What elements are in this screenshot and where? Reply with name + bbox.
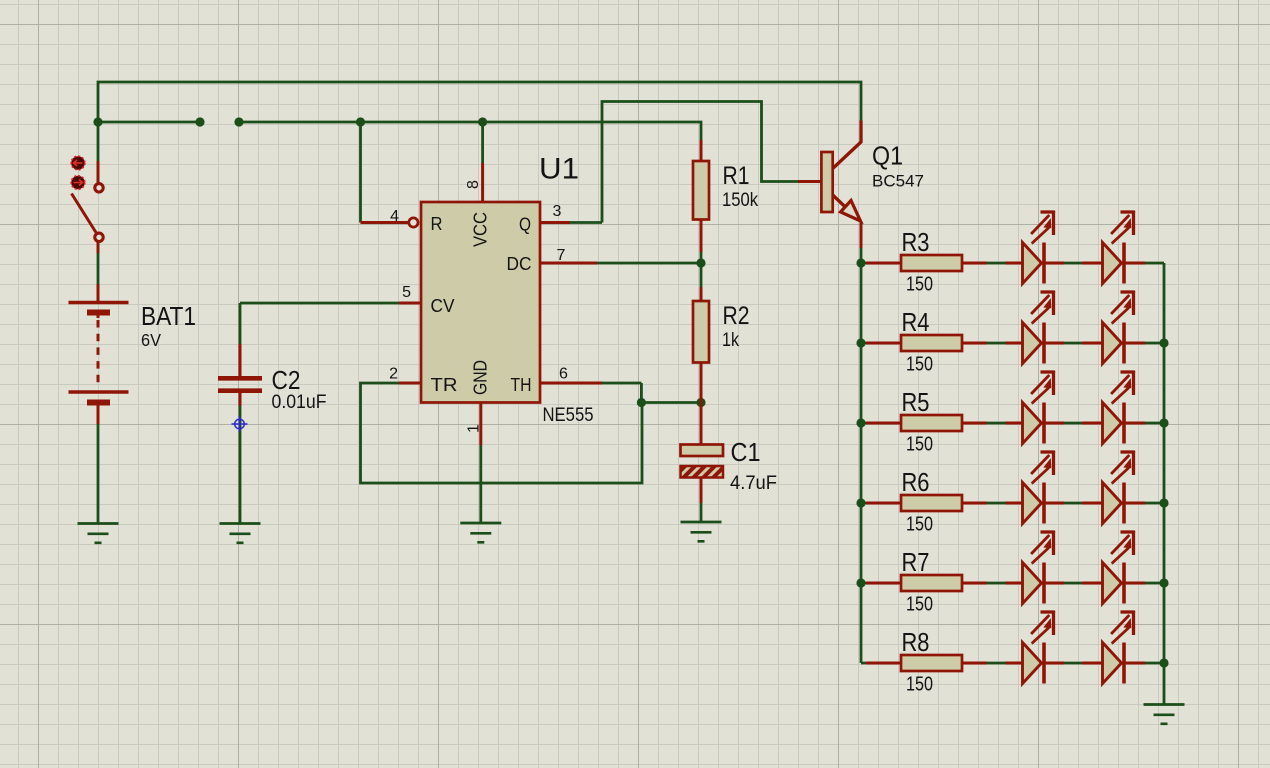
LED D8	[1103, 483, 1122, 524]
wire	[1163, 263, 1166, 704]
svg-text:BC547: BC547	[872, 173, 924, 191]
node junction	[195, 117, 204, 126]
wire pin6 TH net	[540, 382, 602, 385]
svg-text:R8: R8	[902, 627, 930, 657]
svg-text:R4: R4	[902, 307, 930, 337]
node junction	[234, 117, 243, 126]
svg-text:TR: TR	[431, 374, 458, 395]
origin marker	[232, 416, 248, 432]
svg-text:3: 3	[553, 203, 562, 220]
ground C1	[681, 522, 722, 541]
svg-text:R5: R5	[902, 387, 930, 417]
wire	[97, 253, 100, 284]
svg-text:C2: C2	[272, 365, 301, 395]
wire	[239, 303, 242, 344]
capacitor C1	[700, 403, 703, 445]
svg-text:C1: C1	[731, 437, 761, 467]
wire pin1	[479, 403, 482, 445]
svg-text:150: 150	[906, 514, 933, 536]
node junction	[696, 398, 705, 407]
svg-text:150: 150	[906, 434, 933, 456]
node junction	[1159, 658, 1168, 667]
op-amp/timer U1 NE555	[421, 202, 540, 403]
LED D2	[1103, 243, 1122, 284]
svg-text:R1: R1	[723, 162, 750, 190]
svg-text:150: 150	[906, 274, 933, 296]
svg-text:7: 7	[557, 247, 566, 264]
svg-text:1k: 1k	[722, 330, 739, 351]
wire	[399, 302, 421, 305]
resistor R7	[901, 575, 962, 591]
svg-text:R2: R2	[723, 302, 750, 330]
svg-text:TH: TH	[511, 374, 532, 395]
wire	[239, 406, 242, 524]
LED D10	[1103, 563, 1122, 604]
battery BAT1	[97, 284, 100, 302]
svg-text:150: 150	[906, 354, 933, 376]
resistor R3	[901, 255, 962, 271]
node junction	[1159, 578, 1168, 587]
node junction	[856, 258, 865, 267]
wire	[98, 121, 200, 124]
node junction	[856, 338, 865, 347]
svg-text:8: 8	[465, 180, 482, 189]
svg-text:R6: R6	[902, 467, 930, 497]
svg-text:U1: U1	[539, 153, 579, 186]
resistor R4	[901, 335, 962, 351]
wire row R5	[861, 422, 1164, 425]
svg-text:R7: R7	[902, 547, 930, 577]
wire	[700, 252, 703, 263]
LED D3	[1023, 323, 1042, 364]
wire pin4	[359, 122, 362, 223]
ground LED rail	[1144, 705, 1185, 724]
wire	[860, 248, 863, 263]
resistor R1	[700, 140, 703, 161]
svg-text:Q1: Q1	[872, 141, 903, 171]
LED D7	[1023, 483, 1042, 524]
svg-text:4.7uF: 4.7uF	[730, 473, 777, 494]
ground C2	[220, 524, 261, 543]
ground U1 pin1	[460, 523, 501, 542]
LED D5	[1023, 403, 1042, 444]
wire row R4	[861, 342, 1164, 345]
svg-text:2: 2	[389, 366, 398, 383]
switch SW1	[97, 122, 100, 161]
wire node link	[641, 401, 701, 404]
node junction	[93, 117, 102, 126]
svg-text:BAT1: BAT1	[141, 301, 196, 331]
wire row R8	[861, 662, 1164, 665]
svg-text:GND: GND	[470, 360, 491, 395]
wire pin8	[481, 122, 484, 163]
svg-text:Q: Q	[519, 214, 531, 235]
svg-text:VCC: VCC	[470, 212, 491, 247]
resistor R8	[901, 655, 962, 671]
capacitor C2	[239, 344, 242, 376]
LED D4	[1103, 323, 1122, 364]
wire row R3	[861, 262, 1164, 265]
node junction	[478, 117, 487, 126]
transistor Q1	[821, 152, 832, 212]
svg-text:0.01uF: 0.01uF	[272, 392, 327, 413]
wire	[860, 263, 863, 663]
svg-text:150: 150	[906, 594, 933, 616]
node junction	[856, 498, 865, 507]
wire	[97, 424, 100, 524]
node junction	[856, 578, 865, 587]
LED D11	[1023, 643, 1042, 684]
LED D12	[1103, 643, 1122, 684]
wire	[239, 122, 701, 141]
node junction	[1159, 338, 1168, 347]
LED D6	[1103, 403, 1122, 444]
wire row R7	[861, 582, 1164, 585]
node junction	[856, 418, 865, 427]
wire	[700, 503, 703, 522]
wire pin3 net	[540, 221, 570, 224]
node junction	[356, 117, 365, 126]
ground battery	[78, 524, 119, 543]
wire row R6	[861, 502, 1164, 505]
node junction	[637, 398, 646, 407]
svg-text:6: 6	[559, 366, 568, 383]
svg-text:R: R	[431, 213, 443, 234]
svg-text:NE555: NE555	[543, 405, 594, 426]
LED D1	[1023, 243, 1042, 284]
resistor R5	[901, 415, 962, 431]
node junction	[696, 258, 705, 267]
svg-text:6V: 6V	[141, 330, 161, 350]
node junction	[1159, 418, 1168, 427]
svg-text:150k: 150k	[722, 190, 758, 211]
wire	[240, 302, 399, 305]
svg-text:DC: DC	[507, 253, 532, 274]
wire pin7 DC net	[540, 262, 597, 265]
svg-text:150: 150	[906, 674, 933, 696]
resistor R6	[901, 495, 962, 511]
LED D9	[1023, 563, 1042, 604]
node junction	[1159, 498, 1168, 507]
wire	[700, 263, 703, 287]
wire	[98, 82, 861, 122]
wire pin2 TR loop	[399, 382, 421, 385]
svg-text:5: 5	[402, 284, 411, 301]
svg-text:CV: CV	[431, 295, 456, 316]
svg-text:R3: R3	[902, 227, 930, 257]
